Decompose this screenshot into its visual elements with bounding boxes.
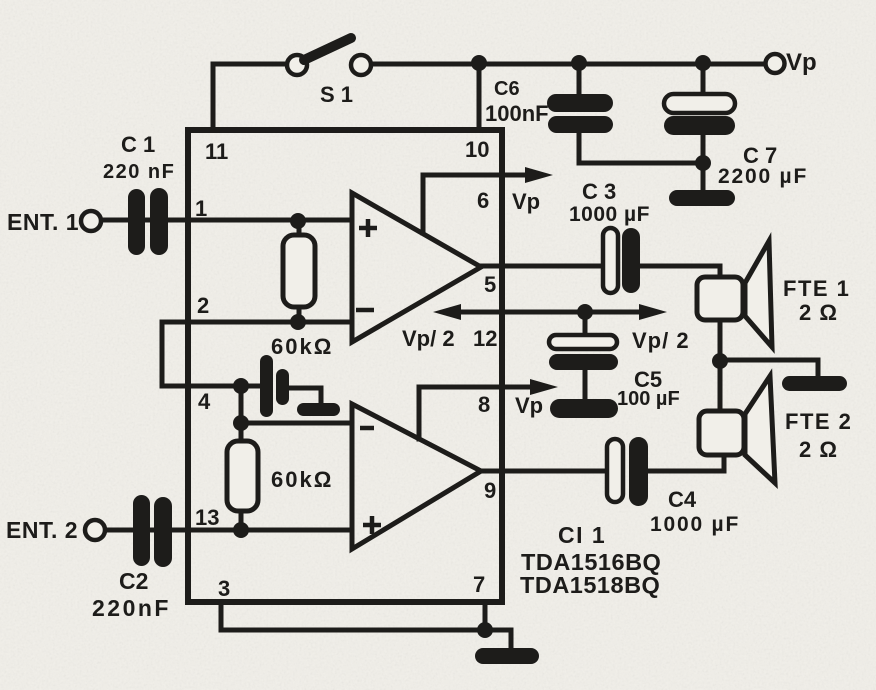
- svg-text:CI 1: CI 1: [558, 522, 606, 548]
- svg-text:C2: C2: [119, 568, 148, 594]
- svg-text:11: 11: [205, 139, 228, 164]
- svg-text:ENT. 1: ENT. 1: [7, 209, 79, 235]
- svg-text:ENT. 2: ENT. 2: [6, 517, 78, 543]
- svg-text:S 1: S 1: [320, 82, 353, 107]
- svg-text:C4: C4: [668, 487, 697, 512]
- svg-text:220 nF: 220 nF: [103, 161, 175, 183]
- svg-text:2200 µF: 2200 µF: [718, 165, 808, 188]
- svg-text:100 µF: 100 µF: [617, 388, 680, 410]
- svg-text:60kΩ: 60kΩ: [271, 334, 333, 359]
- svg-text:C6: C6: [494, 78, 520, 100]
- svg-text:TDA1518BQ: TDA1518BQ: [520, 572, 660, 598]
- svg-text:12: 12: [473, 326, 497, 351]
- svg-text:Vp/ 2: Vp/ 2: [402, 326, 455, 351]
- svg-text:C 3: C 3: [582, 179, 616, 204]
- svg-text:10: 10: [465, 137, 489, 162]
- svg-text:1: 1: [195, 196, 207, 221]
- svg-text:1000 µF: 1000 µF: [650, 513, 740, 536]
- svg-text:C 1: C 1: [121, 132, 155, 157]
- svg-text:FTE 2: FTE 2: [785, 409, 852, 434]
- svg-text:1000 µF: 1000 µF: [569, 203, 650, 226]
- svg-text:2 Ω: 2 Ω: [799, 300, 838, 325]
- svg-text:3: 3: [218, 576, 230, 601]
- svg-text:4: 4: [198, 389, 211, 414]
- svg-text:9: 9: [484, 478, 496, 503]
- svg-text:6: 6: [477, 188, 489, 213]
- svg-text:FTE 1: FTE 1: [783, 276, 850, 301]
- svg-text:2: 2: [197, 293, 209, 318]
- svg-text:2 Ω: 2 Ω: [799, 437, 838, 462]
- svg-text:7: 7: [473, 572, 485, 597]
- svg-text:Vp: Vp: [512, 189, 540, 214]
- svg-text:Vp/ 2: Vp/ 2: [632, 328, 690, 353]
- svg-text:Vp: Vp: [515, 393, 543, 418]
- svg-text:100nF: 100nF: [485, 101, 549, 126]
- svg-text:5: 5: [484, 272, 496, 297]
- svg-text:220nF: 220nF: [92, 595, 171, 621]
- svg-text:8: 8: [478, 392, 490, 417]
- svg-text:60kΩ: 60kΩ: [271, 467, 333, 492]
- svg-text:13: 13: [195, 505, 219, 530]
- svg-text:Vp: Vp: [786, 49, 817, 76]
